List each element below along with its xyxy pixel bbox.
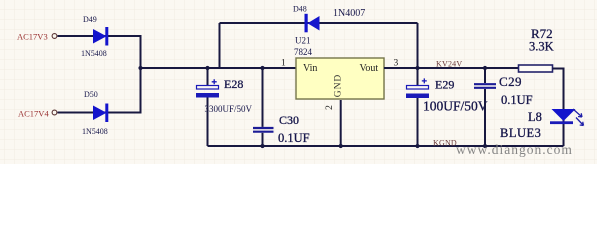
svg-text:BLUE3: BLUE3 <box>500 126 541 140</box>
svg-text:3.3K: 3.3K <box>529 40 554 54</box>
svg-text:Vin: Vin <box>303 63 317 74</box>
capacitor C30 lead top <box>262 68 264 127</box>
junction dot E29/D48 on Vout rail <box>415 66 419 70</box>
terminal circle AC17V4 <box>52 110 57 115</box>
svg-text:KGND: KGND <box>433 139 457 148</box>
svg-text:E29: E29 <box>435 78 454 92</box>
svg-text:1N4007: 1N4007 <box>333 8 365 19</box>
capacitor C29 lead top <box>484 68 486 83</box>
svg-text:GND: GND <box>334 74 344 98</box>
wire D48 branch left vertical <box>219 23 221 68</box>
wire pin 2 to ground rail <box>340 100 342 146</box>
junction dot E29 on ground rail <box>415 144 419 148</box>
wire Vout rail <box>384 67 519 69</box>
regulator U21 7824 <box>296 58 384 99</box>
svg-text:D50: D50 <box>84 90 98 99</box>
svg-text:D49: D49 <box>83 15 97 24</box>
svg-text:3: 3 <box>394 58 399 68</box>
svg-text:100UF/50V: 100UF/50V <box>423 99 488 114</box>
svg-text:0.1UF: 0.1UF <box>278 131 310 145</box>
wire AC17V4 to D50 and to node A <box>58 112 141 114</box>
capacitor E28 <box>196 79 219 97</box>
wire ground rail KGND <box>208 145 564 147</box>
svg-text:C29: C29 <box>499 74 522 89</box>
wire R72 to LED branch <box>553 69 564 147</box>
capacitor E29 lead top <box>417 68 419 86</box>
svg-text:1: 1 <box>281 58 286 68</box>
capacitor E29 <box>406 78 429 98</box>
resistor R72 <box>519 65 553 72</box>
capacitor E28 lead top <box>207 68 209 86</box>
diode D50 <box>93 104 108 123</box>
capacitor C30 lead bottom <box>262 133 264 146</box>
wire D48 branch top horizontal <box>220 22 418 24</box>
svg-text:www.diangon.com: www.diangon.com <box>456 142 573 157</box>
diode D48 <box>305 14 320 33</box>
svg-text:E28: E28 <box>224 77 243 91</box>
capacitor E28 lead bottom <box>207 98 209 147</box>
wire main Vin rail <box>141 67 297 69</box>
svg-text:AC17V4: AC17V4 <box>18 109 49 119</box>
junction dot C29 on ground rail <box>483 144 487 148</box>
wire vertical joining D49/D50 outputs <box>140 35 142 114</box>
junction dot C30 on ground rail <box>260 144 264 148</box>
junction dot C29 on Vout rail <box>483 66 487 70</box>
junction dot E28 on rail <box>205 66 209 70</box>
capacitor C29 <box>474 84 496 88</box>
svg-text:1N5408: 1N5408 <box>82 127 108 136</box>
svg-text:C30: C30 <box>279 113 299 127</box>
capacitor C29 lead bottom <box>484 89 486 146</box>
svg-text:1N5408: 1N5408 <box>81 49 107 58</box>
svg-text:7824: 7824 <box>294 47 313 57</box>
svg-text:L8: L8 <box>528 110 542 124</box>
svg-text:0.1UF: 0.1UF <box>501 93 533 107</box>
svg-text:KV24V: KV24V <box>436 59 462 68</box>
junction dot C30 on rail <box>260 66 264 70</box>
node A junction dot (diode output to rail) <box>138 66 142 70</box>
svg-text:3300UF/50V: 3300UF/50V <box>205 104 253 114</box>
svg-text:U21: U21 <box>295 36 311 46</box>
svg-text:2: 2 <box>325 105 335 110</box>
wire AC17V3 to D49 and to node A <box>58 35 141 37</box>
terminal circle AC17V3 <box>52 34 57 39</box>
svg-text:Vout: Vout <box>360 63 379 74</box>
capacitor C30 <box>253 128 274 132</box>
junction dot pin2 on ground rail <box>339 144 343 148</box>
wire D48 branch right vertical down to Vout rail <box>417 23 419 68</box>
LED L8 <box>550 109 584 126</box>
svg-text:AC17V3: AC17V3 <box>17 32 48 42</box>
svg-text:D48: D48 <box>293 5 307 14</box>
capacitor E29 lead bottom <box>417 98 419 146</box>
diode D49 <box>93 27 108 46</box>
